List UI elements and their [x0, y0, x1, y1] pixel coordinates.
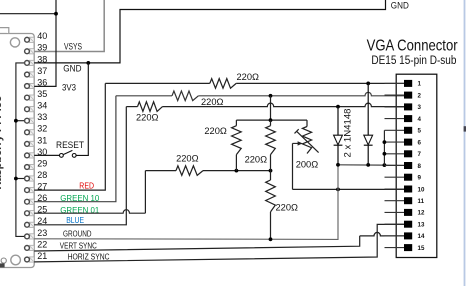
svg-text:22: 22	[37, 239, 47, 249]
svg-text:GROUND: GROUND	[63, 230, 92, 239]
svg-text:HORIZ SYNC: HORIZ SYNC	[68, 252, 110, 261]
svg-text:11: 11	[418, 198, 425, 205]
svg-text:28: 28	[37, 170, 47, 180]
svg-text:5: 5	[418, 128, 422, 135]
svg-text:7: 7	[418, 151, 422, 158]
svg-text:2 x 1N4148: 2 x 1N4148	[342, 108, 352, 157]
svg-text:13: 13	[418, 222, 425, 229]
svg-text:VGA Connector: VGA Connector	[367, 38, 459, 55]
svg-text:2: 2	[418, 92, 422, 99]
svg-text:1: 1	[418, 81, 422, 88]
svg-text:RED: RED	[79, 181, 94, 190]
svg-text:Raspberry Pi Pico: Raspberry Pi Pico	[0, 95, 4, 189]
svg-text:31: 31	[37, 135, 47, 145]
svg-text:220Ω: 220Ω	[201, 97, 224, 107]
svg-text:14: 14	[418, 233, 425, 240]
svg-text:10: 10	[418, 186, 425, 193]
svg-text:220Ω: 220Ω	[245, 154, 268, 164]
svg-text:33: 33	[37, 112, 47, 122]
svg-text:BLUE: BLUE	[66, 216, 84, 225]
svg-text:15: 15	[418, 245, 425, 252]
svg-text:4: 4	[418, 116, 422, 123]
svg-text:220Ω: 220Ω	[276, 202, 299, 212]
svg-text:220Ω: 220Ω	[176, 154, 199, 164]
svg-text:6: 6	[418, 139, 422, 146]
svg-text:220Ω: 220Ω	[237, 72, 260, 82]
svg-text:VSYS: VSYS	[64, 41, 82, 51]
svg-text:23: 23	[37, 228, 47, 238]
svg-text:29: 29	[37, 158, 47, 168]
svg-text:34: 34	[37, 101, 47, 111]
svg-text:21: 21	[37, 251, 47, 261]
svg-text:DE15 15-pin D-sub: DE15 15-pin D-sub	[371, 55, 456, 67]
svg-text:12: 12	[418, 210, 425, 217]
svg-text:9: 9	[418, 175, 422, 182]
svg-text:220Ω: 220Ω	[204, 126, 227, 136]
svg-text:GND: GND	[63, 64, 81, 74]
svg-text:35: 35	[37, 89, 47, 99]
svg-text:VERT SYNC: VERT SYNC	[60, 241, 97, 250]
svg-text:220Ω: 220Ω	[136, 112, 159, 122]
svg-text:8: 8	[418, 163, 422, 170]
svg-text:GND: GND	[391, 0, 409, 10]
svg-text:32: 32	[37, 124, 47, 134]
svg-text:3V3: 3V3	[62, 82, 76, 92]
svg-text:RESET: RESET	[56, 140, 84, 150]
svg-text:40: 40	[37, 31, 47, 41]
svg-text:3: 3	[418, 104, 422, 111]
svg-text:37: 37	[37, 66, 47, 76]
svg-text:200Ω: 200Ω	[296, 160, 319, 170]
